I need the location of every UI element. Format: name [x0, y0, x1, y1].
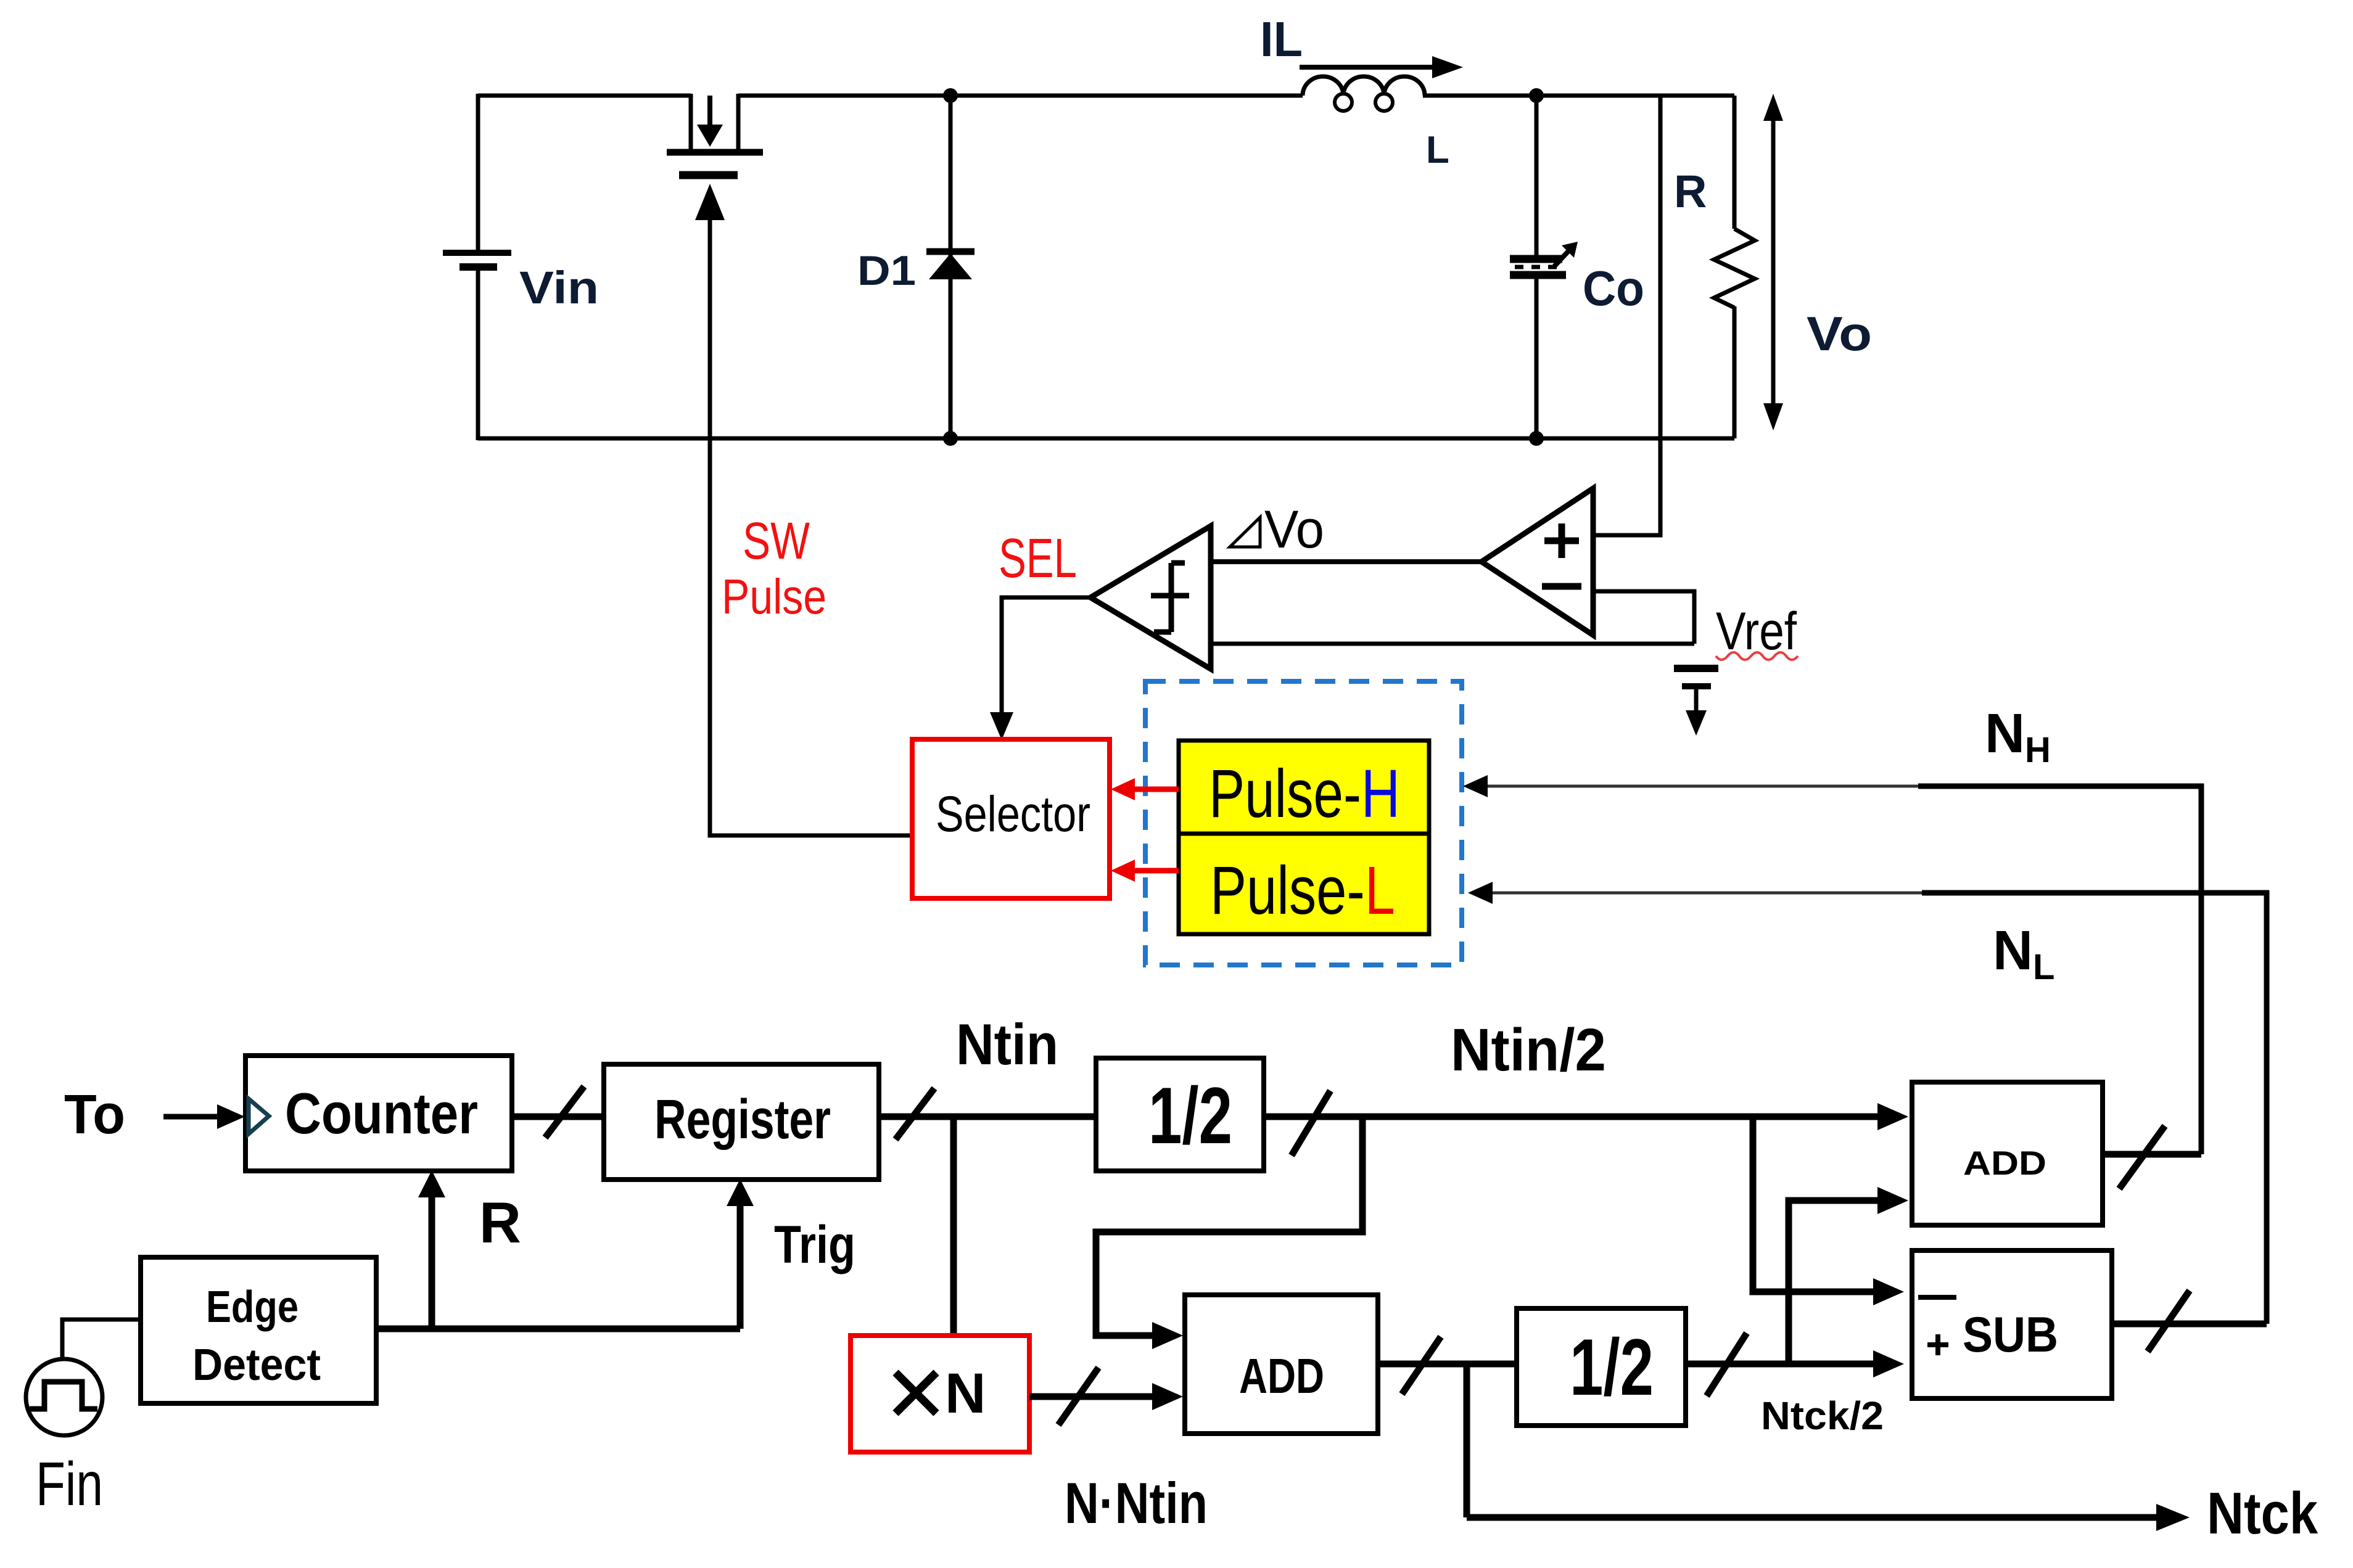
svg-text:IL: IL — [1260, 12, 1303, 67]
arrow Trig to Register — [727, 1179, 754, 1329]
block ADD second — [1912, 1082, 2103, 1225]
wire ADD1 output — [1378, 1361, 1517, 1368]
svg-text:Co: Co — [1583, 261, 1644, 316]
svg-text:R: R — [1674, 166, 1707, 217]
svg-text:NH: NH — [1985, 703, 2051, 770]
wire Vo sense line — [1593, 96, 1660, 535]
block Counter — [245, 1056, 512, 1171]
wire Ntin/2 bus — [1264, 1103, 1908, 1130]
wire SUB output to NL — [2112, 1321, 2267, 1328]
svg-text:Selector: Selector — [936, 786, 1090, 842]
bus slash 5 — [1402, 1337, 1441, 1394]
bus slash 6 — [1707, 1333, 1747, 1396]
capacitor Co — [1510, 96, 1578, 438]
inductor L — [1303, 76, 1425, 111]
wire Ntck output — [1467, 1504, 2190, 1531]
transistor Q1 (PMOS switch) — [667, 94, 763, 175]
wire Counter to Register — [512, 1114, 604, 1120]
battery Vin — [443, 253, 511, 267]
svg-text:1/2: 1/2 — [1148, 1070, 1232, 1160]
wire NL feedback to Pulse-L — [1468, 882, 2269, 1324]
arrow To into Counter — [163, 1104, 245, 1129]
svg-text:1/2: 1/2 — [1570, 1322, 1654, 1412]
svg-text:Pulse: Pulse — [722, 569, 826, 624]
arrow xN to ADD input2 — [1029, 1383, 1183, 1410]
wire Ntck/2 up to ADD2 input2 — [1789, 1187, 1908, 1364]
arrow IL current direction — [1300, 56, 1463, 78]
squiggle under Vref — [1716, 652, 1798, 660]
svg-text:SUB: SUB — [1963, 1307, 2058, 1363]
svg-text:Vin: Vin — [519, 262, 599, 313]
svg-text:Ntck: Ntck — [2207, 1480, 2318, 1546]
wire Edge Detect output — [376, 1326, 740, 1332]
bus slash 4 — [1058, 1368, 1098, 1425]
wire bottom rail — [478, 437, 1734, 441]
bus slash 1 — [545, 1086, 584, 1138]
svg-text:Ntin: Ntin — [956, 1012, 1058, 1077]
svg-text:R: R — [479, 1190, 521, 1255]
label SW Pulse — [722, 512, 826, 624]
arrow Pulse-L to Selector (red) — [1111, 860, 1179, 882]
bus slash 7 — [2119, 1126, 2165, 1189]
wire top rail left segment — [478, 94, 691, 98]
svg-text:Ntck/2: Ntck/2 — [1761, 1394, 1884, 1438]
resistor R — [1714, 96, 1755, 438]
svg-text:NL: NL — [1993, 920, 2054, 987]
svg-text:Edge: Edge — [206, 1283, 299, 1332]
svg-text:Trig: Trig — [774, 1215, 855, 1275]
op-amp U1 error amplifier — [1481, 488, 1593, 635]
block divider 1/2 second — [1517, 1308, 1686, 1426]
svg-text:Ntin/2: Ntin/2 — [1451, 1016, 1606, 1083]
svg-text:Fin: Fin — [36, 1450, 103, 1519]
svg-text:Counter: Counter — [285, 1081, 478, 1146]
wire U1 minus input to Vref — [1593, 591, 1694, 644]
bus slash 8 — [2148, 1291, 2190, 1352]
wire dVo net — [1211, 559, 1481, 564]
block Edge Detect — [141, 1257, 376, 1403]
wire SW Pulse gate drive — [695, 184, 912, 835]
wire SEL output — [990, 597, 1090, 740]
wire top rail right segment — [1423, 94, 1734, 98]
bus slash 3 — [1292, 1091, 1330, 1155]
svg-text:SEL: SEL — [999, 528, 1077, 589]
source Fin pulse generator — [26, 1320, 141, 1435]
comparator U2 with hysteresis — [1090, 526, 1211, 669]
selector block — [912, 739, 1110, 898]
svg-text:N: N — [945, 1362, 986, 1425]
wire top rail middle segment — [738, 94, 1303, 98]
wire ADD2 output to NH — [2103, 1151, 2201, 1158]
arrow Vo measurement double-headed — [1763, 94, 1783, 430]
svg-text:Pulse-L: Pulse-L — [1210, 853, 1395, 929]
diode D1 — [926, 96, 975, 438]
svg-text:N·Ntin: N·Ntin — [1065, 1471, 1208, 1535]
label dVo — [1230, 500, 1324, 559]
ground Vref reference — [1674, 668, 1718, 736]
bus slash 2 — [896, 1088, 934, 1139]
svg-text:ADD: ADD — [1239, 1348, 1324, 1403]
wire Ntin/2 down to SUB minus input — [1753, 1117, 1904, 1305]
svg-text:Register: Register — [654, 1089, 831, 1151]
wire Ntck/2 bus to SUB plus input — [1686, 1350, 1904, 1377]
block Pulse-H — [1179, 741, 1429, 834]
block divider 1/2 first — [1096, 1058, 1264, 1171]
block ADD first — [1185, 1295, 1378, 1434]
svg-text:Detect: Detect — [192, 1340, 321, 1390]
node switch-diode junction top — [943, 88, 958, 103]
wire junction down to xN — [950, 1117, 957, 1336]
svg-text:Vo: Vo — [1807, 306, 1872, 361]
wire left vertical (Vin branch) — [476, 94, 480, 440]
svg-text:ADD: ADD — [1963, 1144, 2046, 1182]
wire junction down to Ntck — [1464, 1364, 1470, 1517]
wire Register output bus Ntin — [879, 1114, 1096, 1120]
block xN multiplier — [851, 1336, 1029, 1452]
block Pulse-L — [1179, 834, 1429, 934]
node output junction top — [1529, 88, 1544, 103]
svg-text:SW: SW — [743, 512, 810, 570]
node diode junction bottom — [943, 431, 958, 446]
arrow Pulse-H to Selector (red) — [1111, 778, 1179, 800]
dashed pulse generator group box — [1145, 681, 1462, 965]
wire NH feedback to Pulse-H — [1463, 775, 2204, 1154]
svg-text:D1: D1 — [857, 247, 916, 294]
node capacitor junction bottom — [1529, 431, 1544, 446]
wire feedback Ntin/2 to ADD input1 — [1096, 1117, 1362, 1349]
svg-text:Pulse-H: Pulse-H — [1209, 756, 1400, 832]
block Register — [604, 1064, 879, 1180]
block SUB — [1912, 1250, 2112, 1398]
svg-text:To: To — [64, 1084, 125, 1146]
arrow R reset to Counter — [418, 1170, 445, 1329]
svg-text:L: L — [1426, 129, 1449, 171]
wire Vref net — [1211, 642, 1694, 646]
svg-text:Vo: Vo — [1264, 500, 1324, 559]
